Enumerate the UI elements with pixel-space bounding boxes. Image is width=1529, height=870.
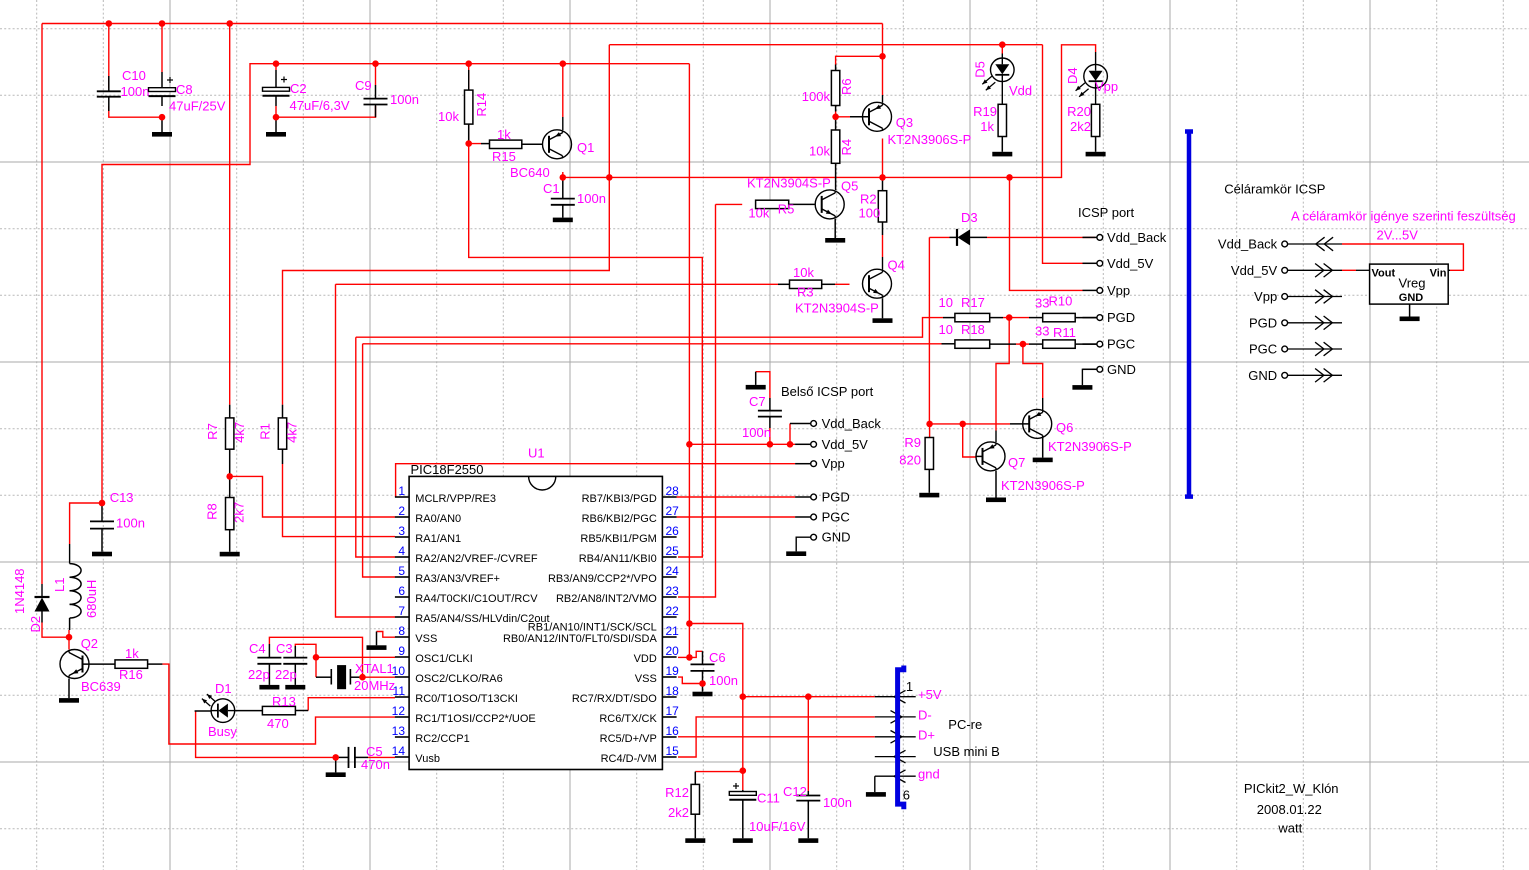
svg-text:C2: C2 (290, 81, 307, 96)
target port Vdd_5V chevron (1288, 269, 1342, 271)
wire C9 top (375, 64, 377, 85)
svg-text:2k7: 2k7 (231, 502, 246, 523)
svg-text:watt: watt (1277, 821, 1302, 836)
svg-text:RC5/D+/VP: RC5/D+/VP (600, 733, 657, 745)
port Vdd_5V terminal (1097, 260, 1103, 266)
svg-text:Vpp: Vpp (1095, 79, 1118, 94)
svg-text:RB7/KBI3/PGD: RB7/KBI3/PGD (582, 493, 657, 505)
svg-text:R9: R9 (904, 435, 921, 450)
wire pin9 OSC1 (316, 656, 395, 658)
wire Vdd_5V Belso bus y444 (689, 443, 795, 445)
svg-text:10k: 10k (748, 206, 769, 221)
svg-text:RB1/AN10/INT1/SCK/SCL: RB1/AN10/INT1/SCK/SCL (528, 622, 657, 634)
pin 6 stub (395, 596, 409, 598)
wire pin28 to Belso PGD (677, 496, 796, 498)
svg-text:C7: C7 (749, 394, 766, 409)
USB pin gnd (875, 775, 916, 777)
svg-text:21: 21 (666, 624, 680, 638)
pin 5 stub (395, 576, 409, 578)
pin 16 stub (662, 736, 676, 738)
svg-text:4k7: 4k7 (285, 422, 300, 443)
pin 15 stub (662, 756, 676, 758)
svg-text:KT2N3904S-P: KT2N3904S-P (795, 301, 879, 316)
svg-text:7: 7 (398, 604, 405, 618)
pin 27 stub (662, 516, 676, 518)
wire pin19 VSS jog (678, 677, 703, 683)
svg-text:KT2N3904S-P: KT2N3904S-P (747, 176, 831, 191)
junction 35 (1020, 341, 1027, 348)
svg-text:PGD: PGD (1249, 315, 1277, 330)
port Belso PGD terminal (811, 494, 817, 500)
svg-text:16: 16 (666, 724, 680, 738)
wire D3 right to Vdd_Back port (987, 236, 1095, 238)
svg-text:U1: U1 (528, 446, 545, 461)
svg-text:2k2: 2k2 (1070, 119, 1091, 134)
pin 26 stub (662, 536, 676, 538)
junction 33 (959, 421, 966, 428)
LED D4 (1084, 64, 1108, 88)
svg-text:R13: R13 (272, 694, 296, 709)
svg-text:Q7: Q7 (1008, 455, 1025, 470)
svg-text:R3: R3 (797, 285, 814, 300)
svg-text:R6: R6 (839, 78, 854, 95)
svg-text:1N4148: 1N4148 (12, 568, 27, 614)
port Belso Vdd_Back lead (790, 423, 811, 425)
ground R20 (1086, 152, 1106, 157)
wire OSC1 to XTAL left (315, 657, 317, 677)
svg-text:MCLR/VPP/RE3: MCLR/VPP/RE3 (415, 493, 496, 505)
resistor R12 (694, 772, 696, 785)
resistor R16 (115, 660, 148, 668)
svg-text:100k: 100k (802, 89, 831, 104)
svg-text:10k: 10k (793, 265, 814, 280)
svg-text:C3: C3 (276, 641, 293, 656)
wire Vdd_5V riser x609 (283, 45, 610, 405)
wire R7 riser (229, 24, 231, 405)
svg-text:R12: R12 (665, 785, 689, 800)
wire pin1 riser and Vpp line (396, 464, 795, 497)
svg-text:13: 13 (392, 724, 406, 738)
svg-text:D2: D2 (28, 616, 43, 633)
svg-text:D1: D1 (215, 681, 232, 696)
port Belso PGC lead (795, 516, 811, 518)
pin 2 stub (395, 516, 409, 518)
capacitor C11 (742, 790, 744, 792)
svg-text:KT2N3906S-P: KT2N3906S-P (1048, 439, 1132, 454)
svg-text:BC640: BC640 (510, 165, 550, 180)
wire pin7 riser (336, 284, 396, 617)
svg-text:R8: R8 (205, 503, 220, 520)
ground C11 (733, 838, 753, 843)
svg-text:KT2N3906S-P: KT2N3906S-P (888, 132, 972, 147)
pin 24 stub (662, 576, 676, 578)
svg-text:USB mini B: USB mini B (933, 744, 999, 759)
bus bracket (blue) (1185, 129, 1193, 134)
junction 19 (226, 473, 233, 480)
svg-text:R18: R18 (961, 322, 985, 337)
pin 25 stub (662, 556, 676, 558)
junction 20 (313, 654, 320, 661)
junction 0 (106, 20, 113, 27)
junction 16 (1006, 174, 1013, 181)
capacitor C9 (375, 85, 377, 99)
svg-text:5: 5 (398, 564, 405, 578)
svg-text:10: 10 (939, 295, 953, 310)
junction 6 (560, 60, 567, 67)
ground Q4 (882, 298, 884, 318)
svg-text:10uF/16V: 10uF/16V (749, 819, 806, 834)
target port PGD chevron (1288, 322, 1342, 324)
port GND lead (1083, 368, 1097, 370)
svg-text:14: 14 (392, 744, 406, 758)
svg-text:VSS: VSS (635, 673, 657, 685)
svg-text:PGC: PGC (1249, 342, 1277, 357)
wire pin21 node to x743 riser (689, 624, 742, 791)
junction 9 (832, 114, 839, 121)
wire C2 top (275, 64, 277, 70)
junction 32 (926, 421, 933, 428)
pin 13 stub (395, 736, 409, 738)
port Vpp terminal (1097, 288, 1103, 294)
port Vdd_5V lead (1083, 262, 1097, 264)
svg-text:OSC2/CLKO/RA6: OSC2/CLKO/RA6 (415, 673, 502, 685)
svg-text:C12: C12 (783, 784, 807, 799)
ground Q7 (995, 471, 997, 498)
capacitor C10 (108, 76, 110, 91)
wire D5 top pin (1001, 45, 1003, 54)
resistor R1 (282, 405, 284, 418)
svg-text:D4: D4 (1065, 67, 1080, 84)
USB pin D- (875, 716, 916, 718)
svg-text:RC6/TX/CK: RC6/TX/CK (599, 713, 657, 725)
wire pin5 riser (363, 344, 395, 577)
junction 1 (159, 20, 166, 27)
ground C12 (798, 838, 818, 843)
resistor R7 (229, 405, 231, 418)
port Belso Vdd_Back terminal (811, 421, 817, 427)
svg-text:OSC1/CLKI: OSC1/CLKI (415, 653, 472, 665)
resistor R3 (778, 283, 790, 285)
junction 13 (560, 174, 567, 181)
svg-text:RA0/AN0: RA0/AN0 (415, 513, 461, 525)
wire L1 bottom (68, 630, 70, 650)
ground C5 (335, 757, 337, 772)
wire pin2 RA0 to R7 R8 node (230, 476, 395, 517)
junction 14 (606, 174, 613, 181)
svg-text:100n: 100n (121, 84, 150, 99)
wire pin16 to USB D+ (678, 736, 875, 738)
target port GND terminal (1282, 372, 1288, 378)
svg-text:R15: R15 (492, 149, 516, 164)
wire VDD y64 bus (102, 64, 689, 503)
capacitor C4 (268, 644, 270, 658)
pin 11 stub (395, 696, 409, 698)
svg-text:1k: 1k (125, 646, 139, 661)
wire riser x469 to pin25 bus (469, 144, 703, 557)
capacitor C7 (769, 398, 771, 411)
wire PGD drop to Q7 (996, 318, 1009, 431)
wire D1 left drop (196, 711, 336, 757)
wire R12 branch (695, 771, 743, 773)
svg-text:Busy: Busy (208, 724, 237, 739)
target port PGC chevron (1288, 348, 1342, 350)
junction 29 (740, 693, 747, 700)
wire pin27 to Belso PGC (677, 516, 796, 518)
resistor R5 (756, 200, 789, 208)
pin 19 stub (662, 676, 676, 678)
svg-text:Vin: Vin (1430, 268, 1447, 280)
pin 14 stub (395, 756, 409, 758)
wire Q1 emitter (562, 64, 564, 117)
USB pin D+ (875, 736, 916, 738)
wire C5 to pin14 Vusb (368, 756, 395, 758)
port Belso GND terminal (811, 534, 817, 540)
svg-text:100n: 100n (577, 191, 606, 206)
svg-text:Vout: Vout (1372, 268, 1396, 280)
svg-text:Q2: Q2 (81, 636, 98, 651)
ground R8 (220, 552, 240, 557)
junction 25 (787, 441, 794, 448)
svg-text:PICkit2_W_Klón: PICkit2_W_Klón (1244, 781, 1339, 796)
svg-text:Q1: Q1 (577, 140, 594, 155)
svg-text:Vpp: Vpp (822, 456, 845, 471)
svg-text:100n: 100n (742, 425, 771, 440)
svg-text:4: 4 (398, 544, 405, 558)
svg-text:R4: R4 (839, 139, 854, 156)
svg-text:23: 23 (666, 584, 680, 598)
svg-text:C1: C1 (543, 181, 560, 196)
port Belso Vpp terminal (811, 461, 817, 467)
resistor R2 (882, 177, 884, 190)
svg-text:R14: R14 (474, 93, 489, 117)
svg-text:PGD: PGD (1107, 310, 1135, 325)
port Vdd_Back terminal (1097, 235, 1103, 241)
svg-text:Vusb: Vusb (415, 753, 440, 765)
port GND terminal (1097, 366, 1103, 372)
wire C10 top (108, 24, 110, 89)
svg-text:2k2: 2k2 (668, 805, 689, 820)
ground USB gnd (874, 776, 876, 792)
svg-text:9: 9 (398, 644, 405, 658)
svg-text:RA4/T0CKI/C1OUT/RCV: RA4/T0CKI/C1OUT/RCV (415, 593, 538, 605)
transistor Q1 (543, 130, 572, 159)
wire C2 C9 bottom link (276, 106, 376, 117)
wire left rail x42 to D2 (41, 24, 43, 585)
ground C6 (702, 684, 704, 692)
svg-text:VDD: VDD (634, 653, 657, 665)
svg-text:KT2N3906S-P: KT2N3906S-P (1001, 478, 1085, 493)
svg-text:10k: 10k (438, 109, 459, 124)
capacitor C8 (161, 72, 163, 88)
svg-text:R10: R10 (1049, 294, 1073, 309)
wire Vpp drop from y177 to ICSP (1010, 177, 1083, 290)
svg-text:Belső ICSP port: Belső ICSP port (781, 384, 874, 399)
ground R12 (685, 838, 705, 843)
junction 24 (767, 441, 774, 448)
port Belso PGC terminal (811, 514, 817, 520)
pin 10 stub (395, 676, 409, 678)
USB pin +5V (875, 696, 916, 698)
wire pin15 to USB D- (678, 717, 875, 757)
svg-text:20MHz: 20MHz (354, 678, 395, 693)
op-amp U1 PIC18F2550 body (409, 476, 662, 769)
ground C7 (755, 372, 757, 385)
wire Vdd_Back top bus (42, 23, 883, 25)
wire riser A x689 to VDD pin (688, 64, 690, 658)
port Belso Vdd_5V lead (795, 443, 811, 445)
svg-text:Q4: Q4 (888, 257, 905, 272)
USB pin nc (875, 756, 916, 758)
pin 7 stub (395, 616, 409, 618)
svg-text:680uH: 680uH (84, 580, 99, 618)
svg-text:RB5/KBI1/PGM: RB5/KBI1/PGM (580, 533, 656, 545)
svg-text:47uF/6,3V: 47uF/6,3V (290, 98, 350, 113)
wire R14 top (468, 64, 470, 90)
junction 4 (372, 60, 379, 67)
wire R9 D3 node bus (930, 423, 1010, 425)
port Belso Vdd_5V terminal (811, 441, 817, 447)
svg-text:RC1/T1OSI/CCP2*/UOE: RC1/T1OSI/CCP2*/UOE (415, 713, 535, 725)
wire Vdd_5V bus y44 (609, 44, 1042, 46)
svg-text:33: 33 (1035, 296, 1049, 311)
target port GND chevron (1288, 374, 1342, 376)
wire Vreg Vout black (1356, 269, 1370, 271)
target port Vdd_Back terminal (1282, 241, 1288, 247)
svg-text:33: 33 (1035, 324, 1049, 339)
svg-text:19: 19 (666, 664, 680, 678)
pin 18 stub (662, 696, 676, 698)
target port PGC terminal (1282, 346, 1288, 352)
wire C4 jog to XTAL right (269, 637, 362, 677)
port Belso Vpp lead (795, 463, 811, 465)
wire C7 top jog (756, 372, 770, 398)
wire pin4 riser (356, 337, 395, 557)
svg-text:Vdd_Back: Vdd_Back (822, 416, 882, 431)
svg-text:C4: C4 (249, 641, 266, 656)
target port Vpp terminal (1282, 294, 1288, 300)
svg-text:22p: 22p (275, 667, 297, 682)
resistor R17 (943, 317, 955, 319)
capacitor C1 (562, 177, 564, 198)
junction 17 (99, 500, 106, 507)
junction 11 (273, 114, 280, 121)
svg-text:8: 8 (398, 624, 405, 638)
junction 26 (686, 620, 693, 627)
pin 20 stub (662, 656, 676, 658)
svg-text:Vdd: Vdd (1009, 83, 1032, 98)
svg-text:GND: GND (1107, 362, 1136, 377)
wire Q7 base branch (963, 424, 976, 457)
svg-text:Vpp: Vpp (1254, 289, 1277, 304)
wire R17 feed (356, 318, 943, 338)
resistor R10 (1029, 317, 1043, 319)
pin 12 stub (395, 716, 409, 718)
junction 8 (879, 53, 886, 60)
voltage regulator Vreg (1370, 264, 1449, 304)
svg-text:Céláramkör ICSP: Céláramkör ICSP (1224, 182, 1325, 197)
wire Q3 collector (882, 139, 884, 178)
svg-text:28: 28 (666, 484, 680, 498)
svg-text:+5V: +5V (918, 687, 942, 702)
resistor R15 (481, 143, 490, 145)
svg-text:RB4/AN11/KBI0: RB4/AN11/KBI0 (579, 553, 657, 565)
wire R5 feed from pin23 riser (716, 203, 743, 205)
wire C12 riser (807, 697, 809, 791)
svg-text:Q6: Q6 (1056, 420, 1073, 435)
port Vpp lead (1083, 289, 1097, 291)
wire Vdd_Back bus drop to Q3 emitter (882, 24, 884, 96)
svg-text:RB2/AN8/INT2/VMO: RB2/AN8/INT2/VMO (556, 593, 657, 605)
svg-text:GND: GND (822, 530, 851, 545)
svg-text:R1: R1 (257, 423, 272, 440)
pin 3 stub (395, 536, 409, 538)
wire pin23 riser (678, 204, 716, 597)
svg-text:PC-re: PC-re (948, 717, 982, 732)
pin 23 stub (662, 596, 676, 598)
wire R18 R11 node (1016, 343, 1029, 345)
target port Vpp chevron (1288, 296, 1342, 298)
svg-text:22p: 22p (248, 667, 270, 682)
resistor R14 (468, 70, 470, 90)
target port PGD terminal (1282, 320, 1288, 326)
wire C10 bottom link (109, 106, 162, 117)
svg-text:Q5: Q5 (841, 179, 858, 194)
capacitor C6 (701, 650, 704, 652)
svg-text:100n: 100n (390, 92, 419, 107)
svg-text:15: 15 (666, 744, 680, 758)
wire R3 left bus y284 (336, 283, 779, 285)
capacitor C2 (275, 70, 277, 87)
ground ICSP GND (1082, 369, 1096, 385)
svg-text:18: 18 (666, 684, 680, 698)
svg-text:RA3/AN3/VREF+: RA3/AN3/VREF+ (415, 573, 500, 585)
wire C7 bottom (769, 428, 771, 444)
wire C6 top jog (689, 651, 702, 657)
pin 17 stub (662, 716, 676, 718)
port PGC terminal (1097, 341, 1103, 347)
port PGD terminal (1097, 315, 1103, 321)
svg-text:100n: 100n (823, 795, 852, 810)
svg-text:ICSP port: ICSP port (1078, 205, 1135, 220)
LED D1 (195, 710, 212, 712)
wire +5V bus (743, 696, 875, 698)
ground Q6 (1042, 435, 1044, 457)
svg-text:100n: 100n (709, 673, 738, 688)
port Belso PGD lead (795, 496, 811, 498)
resistor R8 (229, 476, 231, 497)
svg-text:RB6/KBI2/PGC: RB6/KBI2/PGC (582, 513, 657, 525)
transistor Q4 (863, 269, 892, 298)
capacitor C3 (294, 646, 296, 658)
junction 23 (686, 441, 693, 448)
wire C3 jog (295, 644, 316, 657)
svg-text:20: 20 (666, 644, 680, 658)
svg-text:C8: C8 (176, 82, 193, 97)
svg-text:25: 25 (666, 544, 680, 558)
port Belso GND lead (796, 537, 811, 551)
svg-text:BC639: BC639 (81, 679, 121, 694)
svg-text:Vpp: Vpp (1107, 283, 1130, 298)
junction 12 (465, 140, 472, 147)
svg-text:10: 10 (392, 664, 406, 678)
resistor R20 (1095, 88, 1097, 104)
svg-text:RC0/T1OSO/T13CKI: RC0/T1OSO/T13CKI (415, 693, 518, 705)
svg-text:PGC: PGC (822, 510, 850, 525)
svg-text:3: 3 (398, 524, 405, 538)
junction 22 (332, 754, 339, 761)
resistor R19 (1001, 82, 1003, 105)
ground C3 (285, 685, 305, 690)
